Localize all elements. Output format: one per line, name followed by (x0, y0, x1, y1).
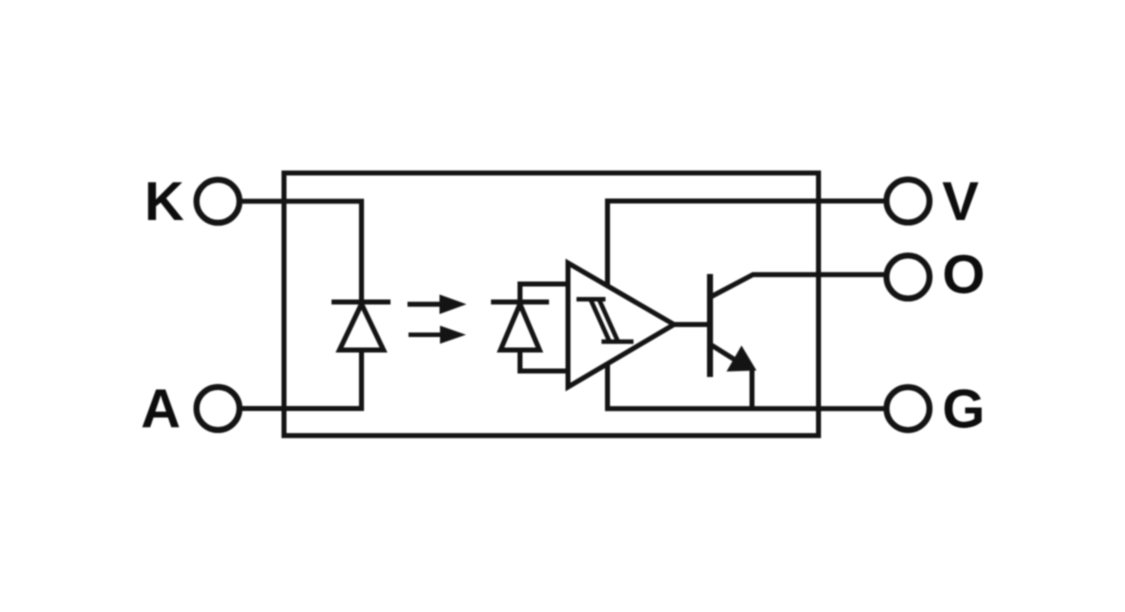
terminal V circle (887, 180, 930, 223)
LED D1 cathode bar (332, 300, 391, 305)
wire: photodiode anode to amplifier input (bottom lead) (520, 350, 568, 371)
light emission arrow (bottom) (409, 332, 444, 337)
transistor Q1 emitter with arrow (711, 345, 737, 361)
transistor Q1 collector and wire to O terminal (711, 275, 886, 297)
terminal A circle (197, 387, 240, 430)
wire: K terminal to LED cathode (241, 201, 362, 302)
svg-text:V: V (942, 170, 979, 232)
light arrow head (top) (440, 295, 467, 315)
terminal G circle (887, 387, 930, 430)
photodiode D2 triangle (anode) (501, 304, 540, 350)
terminal K circle (197, 180, 240, 223)
terminal O circle (887, 256, 930, 299)
svg-text:A: A (141, 377, 181, 439)
hysteresis symbol inside amplifier (577, 299, 634, 341)
light arrow head (bottom) (440, 326, 466, 344)
wire: amplifier output to transistor base (674, 322, 707, 327)
transistor Q1 emitter arrowhead (727, 346, 757, 372)
LED D1 triangle (anode) (340, 304, 384, 350)
wire: emitter to ground rail (750, 367, 755, 409)
wire: photodiode cathode to amplifier input (top lead) (520, 284, 568, 302)
transistor Q1 base bar (707, 274, 713, 377)
wire: LED anode to A terminal (241, 350, 362, 409)
svg-text:K: K (144, 170, 184, 232)
photodiode D2 cathode bar (491, 300, 549, 305)
wire: V supply rail / detector block top and left and ground rail to G (608, 201, 886, 409)
package outline (optocoupler body) (284, 173, 819, 436)
svg-text:G: G (942, 378, 985, 440)
light emission arrow (top) (408, 302, 444, 307)
op-amp U1 (Schmitt-trigger amplifier) (568, 263, 674, 387)
svg-text:O: O (942, 243, 985, 305)
